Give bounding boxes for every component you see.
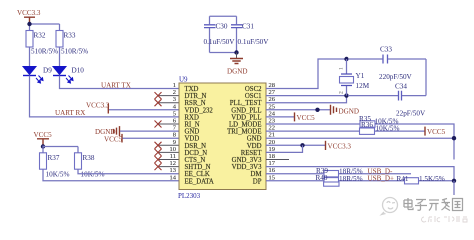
ground DGND at pin25 (331, 105, 360, 116)
node D+ pull-up junction (452, 179, 456, 183)
no-connect X pin11 (155, 156, 162, 163)
no-connect stub pin10 (158, 151, 180, 153)
no-connect X pin6 (155, 121, 162, 128)
watermark subtext (422, 216, 467, 222)
svg-text:5: 5 (173, 110, 176, 117)
node pin21 junction on vertical (452, 136, 456, 140)
node crystal bottom junction (344, 93, 348, 97)
power VCC3.3 at pin4 (86, 102, 110, 114)
no-connect stub pin9 (158, 144, 180, 146)
svg-text:C30: C30 (216, 23, 228, 31)
resistor R33 (56, 31, 88, 56)
wire pin25 GND_PLL to DGND (266, 109, 330, 111)
svg-text:DSR_N: DSR_N (185, 143, 207, 150)
node VCC5 junction R37 (41, 144, 45, 148)
wire oscillator right vertical (425, 59, 427, 96)
svg-text:GND: GND (185, 129, 200, 136)
svg-text:C33: C33 (380, 46, 392, 54)
svg-text:0.1uF/50V: 0.1uF/50V (204, 38, 236, 46)
pin numbers right 28-15 (269, 82, 276, 181)
svg-text:12M: 12M (356, 82, 370, 90)
no-connect stub pin11 (158, 159, 180, 161)
no-connect X pin12 (155, 163, 162, 170)
resistor R36 (360, 121, 400, 135)
capacitor C34 (348, 83, 426, 118)
node VCC3.3 junction (27, 22, 31, 26)
no-connect X pin10 (155, 149, 162, 156)
svg-text:220pF/50V: 220pF/50V (379, 73, 413, 81)
svg-text:R40: R40 (316, 174, 328, 182)
svg-text:SHTD_N: SHTD_N (185, 164, 211, 171)
wire pin28 OSC2 to crystal top (266, 59, 347, 89)
wire pin21 GND to right vertical (266, 137, 454, 139)
svg-text:10K/5%: 10K/5% (46, 171, 70, 179)
svg-text:13: 13 (170, 167, 177, 174)
svg-text:VDD_3V3: VDD_3V3 (232, 164, 262, 171)
wire VCC5 rail to R38 (43, 146, 78, 155)
svg-text:18: 18 (269, 153, 276, 160)
capacitor C30 (204, 16, 236, 52)
svg-text:VCC3.3: VCC3.3 (328, 143, 352, 151)
svg-text:VDD: VDD (185, 136, 200, 143)
crystal Y1 12M (339, 59, 370, 96)
no-connect X pin3 (155, 99, 162, 106)
op IC U9 PL2303 body (178, 76, 266, 201)
svg-text:510R/5%: 510R/5% (61, 48, 88, 56)
svg-text:R41: R41 (397, 175, 409, 183)
svg-text:PLL_TEST: PLL_TEST (230, 100, 263, 107)
svg-text:U9: U9 (179, 76, 188, 84)
svg-text:RSR_N: RSR_N (185, 100, 206, 107)
resistor R32 (26, 31, 58, 56)
no-connect stub pin6 (158, 123, 180, 125)
svg-text:USB_D+: USB_D+ (368, 175, 394, 183)
svg-text:10: 10 (170, 146, 177, 153)
svg-text:R36: R36 (361, 121, 373, 129)
svg-text:11: 11 (170, 153, 176, 160)
svg-text:1: 1 (173, 82, 176, 89)
wire D9 to pin5 UART RX (30, 76, 180, 117)
wire R32 to D9 (29, 46, 31, 66)
svg-text:LD_MODE: LD_MODE (229, 122, 261, 129)
svg-text:RESET: RESET (241, 150, 263, 157)
svg-text:DGND: DGND (339, 108, 360, 116)
svg-text:RI_N: RI_N (185, 122, 200, 129)
svg-text:TXD: TXD (185, 86, 199, 93)
svg-text:R32: R32 (34, 32, 46, 40)
svg-text:1: 1 (339, 67, 345, 70)
resistor R40 (316, 174, 363, 186)
wire R38 to pin13 EE_CLK (78, 169, 179, 174)
resistor R38 (75, 153, 105, 179)
svg-text:2: 2 (173, 89, 176, 96)
wire D10 to pin1 UART TX (60, 76, 180, 89)
svg-text:12: 12 (170, 160, 177, 167)
svg-text:R33: R33 (64, 32, 76, 40)
svg-text:VCC5: VCC5 (34, 131, 53, 139)
pin names right (227, 86, 262, 185)
node crystal top junction (344, 57, 348, 61)
svg-text:VCC5: VCC5 (427, 128, 446, 136)
capacitor C31 (231, 16, 269, 52)
svg-text:C34: C34 (395, 83, 407, 91)
capacitor C33 (348, 46, 426, 82)
no-connect stub pin12 (158, 166, 180, 168)
svg-text:VDD_PLL: VDD_PLL (231, 114, 261, 121)
resistor R41 (397, 175, 445, 184)
wire D+ stub down (453, 181, 455, 195)
ground DGND at pin7 (95, 126, 120, 136)
svg-text:GND_PLL: GND_PLL (231, 107, 261, 114)
svg-text:R38: R38 (83, 154, 95, 162)
svg-text:10K/5%: 10K/5% (376, 125, 400, 133)
power VCC3.3 top-left (17, 9, 41, 23)
svg-text:VCC3.3: VCC3.3 (86, 102, 110, 110)
wire cap top rail (210, 15, 237, 17)
svg-text:DTR_N: DTR_N (185, 93, 207, 100)
svg-text:510R/5%: 510R/5% (31, 48, 58, 56)
resistor R35 (359, 115, 398, 127)
svg-text:TRI_MODE: TRI_MODE (227, 129, 261, 136)
svg-text:14: 14 (170, 174, 177, 181)
power VCC5 at pin24 (295, 112, 316, 122)
svg-text:RXD: RXD (185, 114, 199, 121)
wire pin19 RESET up to pin20 net (266, 145, 303, 152)
wire VCC3.3 to pin4 (109, 109, 179, 111)
power VCC5 at pin22 (425, 127, 446, 136)
wire pin15 DP through R40 and R41 to pull-up node (266, 180, 454, 182)
svg-text:VDD_232: VDD_232 (185, 107, 214, 114)
svg-text:DCD_N: DCD_N (185, 150, 208, 157)
svg-text:Y1: Y1 (356, 72, 365, 80)
svg-text:EE_DATA: EE_DATA (185, 178, 214, 185)
no-connect stub pin3 (158, 102, 180, 104)
wire R37 to pin14 EE_DATA (43, 169, 179, 181)
watermark logo (382, 198, 398, 215)
pin names left (185, 86, 214, 185)
svg-text:UART TX: UART TX (101, 82, 131, 90)
svg-text:DP: DP (253, 178, 262, 185)
svg-text:OSC2: OSC2 (245, 86, 262, 93)
svg-text:CTS_N: CTS_N (185, 157, 206, 164)
svg-text:DM: DM (251, 171, 262, 178)
wire cap bottom rail (210, 52, 237, 54)
svg-text:3: 3 (173, 96, 176, 103)
svg-text:9: 9 (173, 139, 176, 146)
power VCC5 above R37 (34, 131, 53, 146)
svg-text:GND: GND (247, 136, 262, 143)
no-connect X pin2 (155, 92, 162, 99)
svg-text:VCC3.3: VCC3.3 (17, 9, 41, 17)
LED D10 (53, 67, 84, 84)
svg-text:22pF/50V: 22pF/50V (396, 110, 426, 118)
svg-text:2: 2 (339, 91, 345, 94)
svg-text:10K/5%: 10K/5% (81, 171, 105, 179)
svg-text:OSC1: OSC1 (245, 93, 262, 100)
svg-text:1.5K/5%: 1.5K/5% (419, 175, 445, 183)
no-connect X pin9 (155, 142, 162, 149)
wire VCC5 to pin8 (123, 137, 180, 139)
pin numbers left 1-14 (170, 82, 177, 181)
wire pin22 TRI_MODE through R36 to VCC5 (266, 130, 425, 132)
LED D9 (23, 67, 52, 84)
ground DGND below caps (227, 53, 248, 76)
wire pin26 PLL_TEST up to OSC1 net (266, 96, 347, 103)
svg-text:D9: D9 (43, 67, 52, 75)
svg-text:R37: R37 (48, 154, 60, 162)
node pin25 junction (315, 108, 319, 112)
wire pin17 VDD_3V3 to D+ pull-up vertical (266, 167, 454, 181)
svg-text:GND_3V3: GND_3V3 (232, 157, 262, 164)
resistor R39 (316, 167, 363, 177)
node cap ground junction (234, 50, 238, 54)
wire pin20 VDD to VCC3.3 (266, 144, 325, 146)
wire VCC3.3 rail to R32/R33 (30, 23, 60, 31)
wire R33 to D10 (59, 46, 61, 66)
svg-text:PL2303: PL2303 (178, 192, 201, 200)
svg-text:18R/5%: 18R/5% (339, 175, 363, 183)
svg-text:VCC5: VCC5 (104, 136, 123, 144)
wire pin24 VDD_PLL to VCC5 (266, 116, 294, 118)
node pin20/pin19 junction (300, 143, 304, 147)
power VCC3.3 at pin20 (326, 141, 352, 151)
svg-text:EE_CLK: EE_CLK (185, 171, 210, 178)
no-connect stub pin2 (158, 95, 180, 97)
svg-text:D10: D10 (72, 67, 85, 75)
resistor R37 (40, 153, 70, 179)
svg-text:VDD: VDD (247, 143, 262, 150)
svg-text:UART RX: UART RX (55, 109, 85, 117)
svg-text:C31: C31 (242, 23, 254, 31)
wire pin23 LD_MODE through R35 to right vertical (266, 124, 454, 160)
watermark text (404, 198, 463, 211)
wire pin27 OSC1 to crystal bottom (266, 95, 347, 97)
wire DGND to pin7 (120, 130, 179, 132)
svg-text:0.1uF/50V: 0.1uF/50V (238, 38, 270, 46)
svg-text:VCC5: VCC5 (297, 114, 316, 122)
svg-text:DGND: DGND (227, 68, 248, 76)
stub pin18 GND_3V3 (266, 159, 289, 161)
svg-text:8: 8 (173, 132, 176, 139)
wire pin16 DM through R39 to USB_D- (266, 173, 411, 175)
power VCC5 at pin8 (104, 134, 123, 144)
